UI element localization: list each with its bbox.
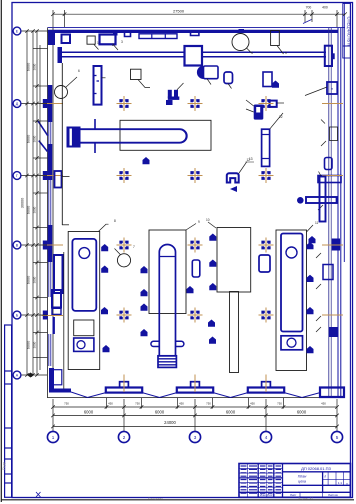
lathe bed capsule xyxy=(79,129,187,143)
right wall beam row3 xyxy=(318,176,341,183)
small black square machine 2 xyxy=(87,36,95,44)
rounded rect with semicircle machine xyxy=(204,66,219,79)
svg-text:24000: 24000 xyxy=(164,420,176,425)
small blue open rect machine xyxy=(263,72,272,87)
svg-text:6000: 6000 xyxy=(27,63,31,71)
small blue two-prong machine xyxy=(168,90,180,100)
machine C outer xyxy=(276,230,307,371)
svg-text:Подп.: Подп. xyxy=(2,461,6,470)
right wall leader ticks xyxy=(316,141,326,332)
svg-text:1: 1 xyxy=(97,41,99,45)
wall-mounted small blue box mid xyxy=(239,29,245,33)
svg-text:750: 750 xyxy=(206,402,211,406)
lathe outer rect xyxy=(120,120,211,150)
svg-text:30000: 30000 xyxy=(21,198,25,209)
right wall outer lines xyxy=(328,28,330,398)
machine B column capsule xyxy=(159,245,175,356)
svg-text:СПЕЦЧАСТЬ п: СПЕЦЧАСТЬ п xyxy=(346,16,351,45)
left dimension lines xyxy=(21,29,48,376)
machine B striped foot xyxy=(158,356,176,368)
svg-text:9: 9 xyxy=(198,220,200,224)
svg-text:6000: 6000 xyxy=(27,135,31,143)
top dimension line xyxy=(51,10,347,27)
svg-text:5: 5 xyxy=(285,51,287,55)
svg-text:27500: 27500 xyxy=(173,9,185,14)
left wall outer line xyxy=(47,28,49,398)
svg-text:6000: 6000 xyxy=(84,410,94,415)
fan circle xyxy=(232,34,249,51)
svg-text:450: 450 xyxy=(250,402,255,406)
small rect between B and C xyxy=(259,255,270,272)
crane beam rails xyxy=(61,51,326,53)
paper left edge xyxy=(0,0,2,502)
workbench bar xyxy=(139,34,177,39)
svg-text:Листов: Листов xyxy=(328,493,338,497)
crane beam right cap xyxy=(325,46,332,66)
left wall thick segments xyxy=(48,85,53,262)
left wall corner pier xyxy=(48,30,55,45)
svg-text:750: 750 xyxy=(135,402,140,406)
machine C motor box xyxy=(281,336,303,350)
bottom wall column caps xyxy=(106,382,344,397)
left axis bubbles xyxy=(13,27,21,35)
svg-text:3000: 3000 xyxy=(33,63,37,70)
diamond marker at bottom-left bubble xyxy=(27,373,34,378)
left margin graph cells xyxy=(5,325,12,497)
conveyor tall rect xyxy=(262,129,270,166)
right wall pilaster box row1 xyxy=(327,82,337,94)
small rect right of machine B xyxy=(192,260,200,277)
svg-text:750: 750 xyxy=(277,402,282,406)
frame inner top-right line xyxy=(343,3,345,263)
crane cross machine horizontal xyxy=(306,197,337,203)
svg-text:6: 6 xyxy=(78,69,80,73)
misc leader labels xyxy=(78,40,319,249)
small open square with leader (mid top) xyxy=(131,69,142,79)
svg-text:Лист: Лист xyxy=(290,493,297,497)
svg-text:11: 11 xyxy=(315,221,319,225)
machine A outer bed xyxy=(68,232,100,370)
machine A table xyxy=(72,239,96,311)
svg-text:6000: 6000 xyxy=(226,410,236,415)
bottom wall outer line xyxy=(48,397,338,399)
left wall window sash diagonals xyxy=(38,121,48,152)
svg-text:13: 13 xyxy=(249,157,253,161)
svg-text:12: 12 xyxy=(279,115,283,119)
crane cross machine vertical xyxy=(320,177,326,222)
svg-text:450: 450 xyxy=(179,402,184,406)
left wall inner line xyxy=(52,28,54,390)
seat machine xyxy=(254,105,264,120)
svg-text:8: 8 xyxy=(114,219,116,223)
right wall pilaster box xyxy=(330,127,338,141)
svg-text:ДП 02068.01.ПЗ: ДП 02068.01.ПЗ xyxy=(301,466,331,471)
svg-text:Формат А1: Формат А1 xyxy=(298,496,313,500)
svg-text:2: 2 xyxy=(112,43,114,47)
svg-text:400: 400 xyxy=(322,6,328,10)
crane cross hub dot xyxy=(297,197,304,204)
machine C table xyxy=(281,234,303,332)
svg-text:3000: 3000 xyxy=(33,341,37,348)
svg-text:4: 4 xyxy=(265,435,268,440)
svg-text:6000: 6000 xyxy=(27,341,31,349)
frame right inner line xyxy=(349,3,351,498)
left wall pier box row3 xyxy=(55,171,62,188)
tall cabinet element xyxy=(94,66,102,105)
machine B side lugs xyxy=(151,341,184,346)
left wall pier box row D xyxy=(52,290,61,308)
svg-text:Л: Л xyxy=(324,475,326,479)
small filled rect xyxy=(166,100,173,105)
bottom wall axis ticks xyxy=(124,375,266,393)
crane beam left cap xyxy=(58,47,63,63)
svg-text:6000: 6000 xyxy=(27,276,31,284)
omega bracket machine xyxy=(227,173,239,182)
machine D head xyxy=(217,228,251,293)
thin edge line right of wall piers xyxy=(63,252,65,390)
title block xyxy=(239,464,350,498)
left wall pilasters xyxy=(43,99,48,320)
svg-text:1:1: 1:1 xyxy=(338,481,343,485)
lathe cross ticks xyxy=(94,119,96,153)
svg-text:цеха: цеха xyxy=(298,480,306,484)
circle machine near wall xyxy=(55,86,68,99)
svg-text:7: 7 xyxy=(133,245,135,249)
svg-text:Копировал: Копировал xyxy=(148,496,163,500)
left wall bottom corner L xyxy=(49,368,71,391)
svg-text:3000: 3000 xyxy=(33,135,37,142)
machine B outer xyxy=(149,230,186,314)
vertical rect machine xyxy=(271,31,280,46)
right wall filled square row4 xyxy=(332,239,340,251)
svg-text:450: 450 xyxy=(108,402,113,406)
svg-text:Г: Г xyxy=(16,174,18,178)
svg-text:6000: 6000 xyxy=(297,410,307,415)
bottom axis bubbles xyxy=(47,431,58,442)
svg-text:1: 1 xyxy=(52,435,55,440)
left wall machine pier xyxy=(54,255,63,293)
column crosses xyxy=(117,96,132,111)
svg-text:План: План xyxy=(298,475,307,479)
svg-text:3: 3 xyxy=(194,435,197,440)
svg-text:700: 700 xyxy=(306,6,312,10)
svg-text:3000: 3000 xyxy=(33,206,37,213)
svg-text:3000: 3000 xyxy=(33,276,37,283)
top wall thick line xyxy=(48,30,339,33)
svg-text:10: 10 xyxy=(206,218,210,222)
arrow dot below omega xyxy=(230,186,237,192)
svg-text:3: 3 xyxy=(121,40,123,44)
right wall filled square lower xyxy=(329,327,338,337)
machine A leader xyxy=(99,224,109,231)
lathe headstock cap xyxy=(67,127,81,148)
machine D stem xyxy=(230,292,239,373)
svg-text:4: 4 xyxy=(251,51,253,55)
copy X mark xyxy=(36,492,41,497)
small blue u-box 4 xyxy=(125,32,131,37)
svg-text:6000: 6000 xyxy=(155,410,165,415)
svg-text:5: 5 xyxy=(336,435,339,440)
right wall inner blue lines xyxy=(337,28,339,397)
machine A lower box xyxy=(74,320,94,336)
wall-mounted blue square 1 xyxy=(62,35,71,44)
machine C leader xyxy=(307,225,314,232)
top-right rotated stamp box xyxy=(343,4,351,59)
u-box under wall xyxy=(191,31,199,36)
column axis line near left wall xyxy=(61,63,63,225)
right wall blue box xyxy=(325,158,333,170)
left wall window thin lines xyxy=(49,122,51,366)
bottom dimension lines xyxy=(51,398,339,431)
svg-text:750: 750 xyxy=(64,402,69,406)
machine A table circle xyxy=(79,248,90,259)
svg-text:2: 2 xyxy=(123,435,126,440)
paper bottom edge xyxy=(1,499,354,501)
small open square right of cross xyxy=(270,101,277,107)
blue square machine 3 xyxy=(100,35,116,45)
left wall axis ticks xyxy=(42,104,64,316)
bottom wall zigzag windows xyxy=(71,392,320,398)
small rounded rect machine xyxy=(224,72,233,84)
crane trolley square xyxy=(185,46,203,66)
right wall open pilaster box xyxy=(323,265,333,280)
svg-text:450: 450 xyxy=(321,402,326,406)
right wall axis ticks xyxy=(322,104,343,316)
top wall outer line xyxy=(48,27,346,29)
svg-text:6000: 6000 xyxy=(27,206,31,214)
position dots xyxy=(101,81,316,354)
circle machine mid xyxy=(117,254,130,267)
machine A motor box xyxy=(74,338,94,351)
